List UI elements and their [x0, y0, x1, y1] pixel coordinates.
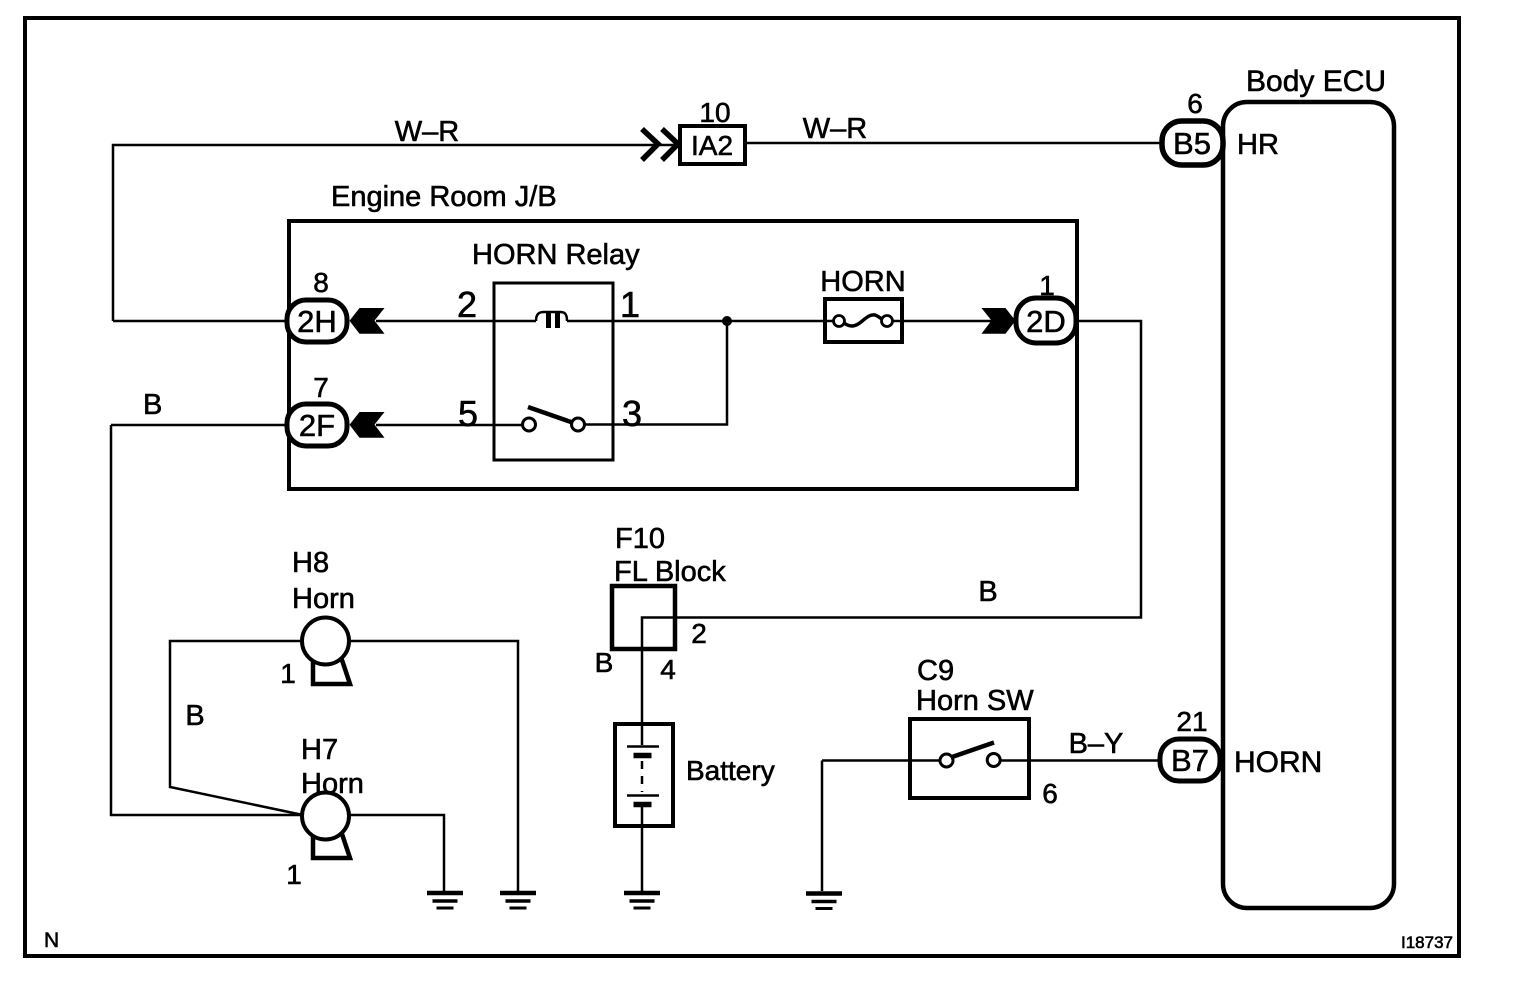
- svg-text:1: 1: [1039, 270, 1055, 301]
- svg-text:7: 7: [313, 372, 329, 403]
- svg-text:2D: 2D: [1026, 304, 1066, 339]
- svg-text:1: 1: [280, 658, 296, 689]
- svg-text:6: 6: [1042, 778, 1058, 809]
- svg-text:B–Y: B–Y: [1069, 728, 1124, 760]
- svg-text:3: 3: [622, 393, 642, 434]
- svg-text:W–R: W–R: [803, 113, 867, 145]
- svg-text:W–R: W–R: [395, 116, 459, 148]
- svg-text:HR: HR: [1237, 129, 1279, 161]
- svg-text:I18737: I18737: [1401, 933, 1453, 952]
- svg-text:Horn: Horn: [292, 583, 355, 615]
- svg-text:N: N: [44, 929, 59, 952]
- svg-text:HORN: HORN: [1234, 746, 1322, 779]
- svg-text:B5: B5: [1173, 126, 1211, 161]
- svg-text:B: B: [185, 700, 204, 732]
- svg-text:1: 1: [286, 859, 302, 890]
- svg-text:B: B: [143, 389, 162, 421]
- svg-text:2: 2: [691, 618, 707, 649]
- svg-text:HORN Relay: HORN Relay: [472, 239, 640, 271]
- svg-text:2H: 2H: [297, 304, 337, 339]
- svg-text:B: B: [978, 576, 997, 608]
- svg-text:Engine Room J/B: Engine Room J/B: [331, 181, 557, 213]
- svg-text:6: 6: [1187, 88, 1203, 119]
- svg-text:Body ECU: Body ECU: [1246, 65, 1386, 98]
- svg-text:10: 10: [699, 97, 730, 128]
- svg-text:21: 21: [1176, 706, 1207, 737]
- svg-text:H8: H8: [292, 547, 329, 579]
- svg-text:2: 2: [457, 284, 477, 325]
- svg-text:HORN: HORN: [820, 266, 905, 298]
- svg-text:4: 4: [660, 654, 676, 685]
- svg-text:2F: 2F: [299, 408, 335, 443]
- svg-text:C9: C9: [917, 655, 954, 687]
- svg-text:IA2: IA2: [691, 130, 733, 161]
- svg-text:8: 8: [313, 267, 329, 298]
- svg-text:Battery: Battery: [686, 755, 775, 786]
- svg-text:Horn: Horn: [301, 768, 364, 800]
- svg-text:B7: B7: [1171, 743, 1209, 778]
- svg-text:1: 1: [620, 284, 640, 325]
- svg-text:F10: F10: [615, 523, 665, 555]
- svg-text:Horn SW: Horn SW: [916, 685, 1034, 717]
- svg-text:B: B: [595, 647, 614, 678]
- svg-text:5: 5: [458, 393, 478, 434]
- svg-text:FL Block: FL Block: [614, 556, 726, 588]
- svg-text:H7: H7: [301, 734, 338, 766]
